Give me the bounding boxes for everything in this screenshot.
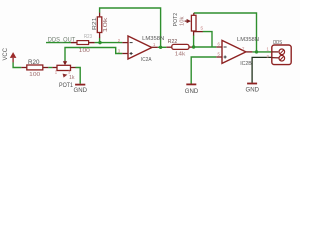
resistor R20 [21,60,48,78]
svg-text:LM358N: LM358N [142,36,164,42]
svg-text:LM358N: LM358N [237,37,259,43]
wire R22 to IC2B inverting input [194,46,216,48]
svg-text:IC2A: IC2A [141,57,152,63]
wire POT2 wiper to IC2B inverting input [203,32,212,47]
ground GND (connector) [246,84,260,94]
svg-text:1k: 1k [69,75,75,81]
wire net DDS_OUT stub to R23 [46,42,71,44]
svg-text:POT2: POT2 [173,13,179,27]
potentiometer POT1 [52,61,75,90]
wire IC2A output to R22 [158,46,167,48]
svg-text:GND: GND [74,88,88,94]
svg-text:100: 100 [79,48,90,54]
wire POT2 bottom terminal to node [193,35,195,47]
wire R20 to POT1 [48,67,52,69]
wire connector DDS pin 2 to GND (dark) [252,57,272,82]
svg-text:GND: GND [185,89,199,95]
ground GND (POT1) [74,85,88,95]
resistor R23 [71,34,95,54]
svg-text:R23: R23 [84,34,92,40]
ground GND (IC2B + input) [185,84,199,95]
node junction R22 / POT2 bottom [192,45,195,48]
wire feedback loop R21 top to IC2A output [100,8,161,47]
svg-text:10k: 10k [103,17,109,33]
svg-text:100: 100 [29,72,40,78]
wire R21 bottom to node [99,38,101,43]
wire POT1 right to GND [76,68,81,84]
svg-text:GND: GND [246,87,260,93]
svg-text:S: S [200,26,203,31]
svg-text:DDS: DDS [273,40,282,46]
svg-text:VCC: VCC [3,47,9,60]
svg-text:R22: R22 [168,39,178,45]
node junction at R23/R21 [98,41,101,44]
wire POT1 wiper to IC2A non-inverting input [65,48,122,61]
resistor R21 [92,13,109,38]
svg-text:14k: 14k [175,51,186,57]
potentiometer POT2 [173,13,204,36]
connector DDS [267,40,292,65]
svg-text:IC2B: IC2B [240,61,252,67]
svg-text:R21: R21 [92,18,98,31]
wire VCC to R20 [13,62,21,67]
power VCC symbol [3,47,16,62]
svg-text:R20: R20 [28,60,40,66]
op-amp IC2B [216,37,259,67]
op-amp IC2A [118,36,164,63]
wire feedback POT2 top to IC2B output [194,13,257,52]
svg-text:POT1: POT1 [59,83,74,89]
wire IC2B output to connector DDS pin 1 [252,51,272,53]
node junction IC2B output / feedback [255,50,258,53]
wire R23 to IC2A inverting input [95,42,123,44]
wire IC2B non-inverting input to GND [191,57,216,84]
resistor R22 [166,39,194,58]
svg-text:10k: 10k [180,16,186,26]
node junction IC2A output / feedback [159,46,162,49]
